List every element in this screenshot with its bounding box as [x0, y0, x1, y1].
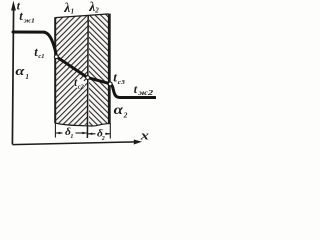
svg-text:2: 2 [123, 111, 128, 120]
svg-text:λ: λ [88, 0, 95, 14]
svg-text:c3: c3 [118, 78, 126, 85]
svg-text:c1: c1 [38, 53, 44, 60]
svg-text:t: t [113, 70, 117, 85]
svg-text:α: α [114, 102, 124, 117]
svg-text:2: 2 [94, 7, 99, 15]
svg-text:α: α [15, 64, 25, 78]
svg-text:x: x [140, 129, 149, 143]
svg-text:t: t [19, 9, 23, 23]
svg-text:ж2: ж2 [138, 88, 154, 96]
svg-text:1: 1 [70, 134, 73, 140]
svg-text:c2: c2 [78, 83, 85, 90]
svg-text:ж1: ж1 [24, 17, 35, 24]
svg-text:t: t [134, 82, 138, 96]
svg-text:1: 1 [71, 7, 75, 15]
svg-text:1: 1 [25, 73, 29, 81]
svg-text:λ: λ [63, 0, 70, 15]
svg-text:2: 2 [101, 136, 105, 142]
